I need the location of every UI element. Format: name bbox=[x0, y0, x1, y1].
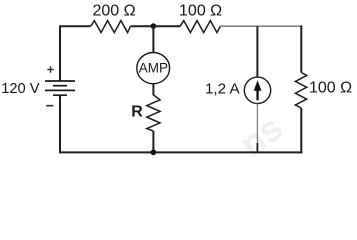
battery V1 plate short upper bbox=[53, 85, 67, 87]
battery V1 plate long lower bbox=[45, 89, 75, 91]
wire: right branch bottom vertical bbox=[300, 108, 302, 153]
wire: top between node A and 100ohm bbox=[153, 25, 180, 27]
wire: top right segment (lighter) bbox=[220, 25, 301, 27]
resistor R vertical zigzag bbox=[147, 95, 160, 131]
wire: left branch top vertical bbox=[59, 25, 61, 81]
battery V1 plate short bottom bbox=[53, 94, 67, 96]
battery V1 plate long top bbox=[45, 80, 75, 82]
wire: top between 200ohm and node A bbox=[131, 25, 154, 27]
wire: top left horizontal (corner to 200ohm resistor) bbox=[60, 25, 91, 27]
wire: bottom horizontal bbox=[59, 151, 302, 153]
svg-text:100 Ω: 100 Ω bbox=[309, 79, 352, 96]
battery V1 plus sign bbox=[47, 66, 53, 72]
svg-text:R: R bbox=[131, 104, 143, 121]
wire: current source branch bottom (lighter) bbox=[256, 104, 258, 144]
wire: middle branch from node A to ammeter bbox=[152, 26, 154, 53]
ammeter U1 circle bbox=[137, 53, 170, 84]
wire: current source branch top bbox=[256, 26, 258, 77]
current source I1 circle bbox=[244, 77, 270, 103]
battery V1 minus sign bbox=[46, 105, 53, 107]
node A junction dot bbox=[151, 23, 157, 29]
current source I1 arrow up bbox=[254, 80, 262, 100]
svg-text:100 Ω: 100 Ω bbox=[179, 3, 222, 20]
resistor 100ohm (right) vertical zigzag bbox=[295, 73, 306, 109]
resistor 100ohm (top) zigzag bbox=[180, 21, 220, 33]
watermark bbox=[232, 107, 290, 165]
svg-text:AMP: AMP bbox=[139, 61, 168, 76]
svg-text:200 Ω: 200 Ω bbox=[92, 3, 135, 20]
bottom junction dot bbox=[151, 149, 157, 155]
svg-text:1,2 A: 1,2 A bbox=[205, 81, 240, 98]
wire: resistor R to bottom node bbox=[152, 131, 154, 152]
resistor R 200ohm zigzag bbox=[91, 21, 131, 33]
wire: left branch bottom vertical bbox=[59, 95, 61, 153]
wire: right branch top vertical bbox=[300, 25, 302, 72]
wire: current source branch bottom dark tail bbox=[256, 143, 258, 152]
svg-text:120 V: 120 V bbox=[1, 81, 40, 97]
wire: ammeter to resistor R bbox=[152, 84, 154, 96]
